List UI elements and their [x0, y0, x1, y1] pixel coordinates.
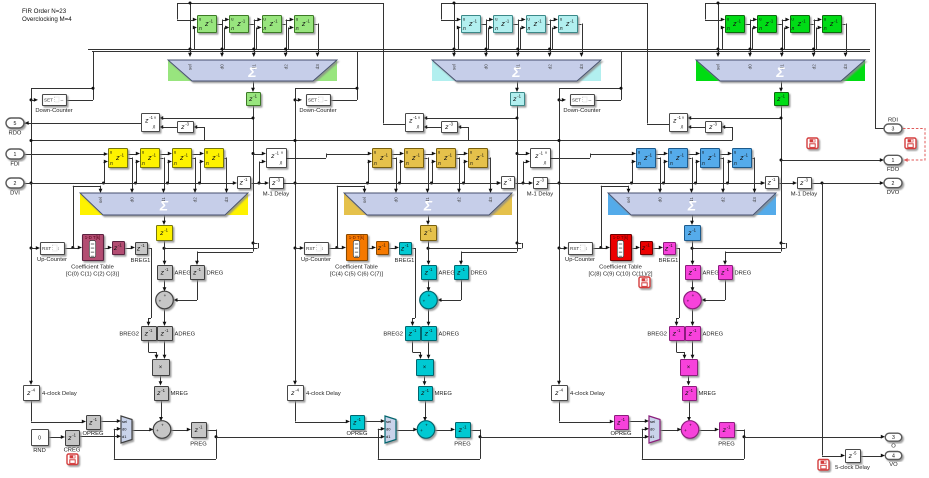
svg-text:d2: d2	[721, 197, 726, 203]
svg-text:-1: -1	[165, 328, 169, 333]
svg-text:d0: d0	[748, 64, 753, 70]
svg-text:-1: -1	[413, 115, 417, 120]
svg-text:-1: -1	[118, 243, 122, 248]
svg-text:Л: Л	[670, 161, 673, 167]
svg-text:u: u	[154, 116, 156, 120]
svg-text:ADREG: ADREG	[703, 332, 724, 338]
svg-text:-1: -1	[429, 328, 433, 333]
svg-text:-1: -1	[405, 243, 409, 248]
svg-text:Σ: Σ	[159, 198, 169, 214]
svg-text:-1: -1	[693, 328, 697, 333]
svg-text:-1: -1	[72, 433, 76, 438]
svg-text:4-clock Delay: 4-clock Delay	[306, 391, 341, 397]
svg-text:-1: -1	[416, 153, 420, 158]
svg-text:d3: d3	[752, 197, 757, 203]
svg-text:sel: sel	[650, 419, 655, 424]
svg-text:DREG: DREG	[471, 271, 488, 277]
svg-text:Л: Л	[702, 161, 705, 167]
svg-text:d3: d3	[315, 64, 320, 70]
svg-text:Л: Л	[560, 26, 563, 32]
svg-text:FDO: FDO	[887, 167, 900, 173]
svg-text:Л: Л	[463, 26, 466, 32]
svg-text:AREG: AREG	[439, 271, 456, 277]
svg-text:Л: Л	[470, 161, 473, 167]
svg-text:-4: -4	[31, 388, 35, 393]
svg-text:-1: -1	[274, 19, 278, 24]
svg-text:BREG2: BREG2	[119, 332, 139, 338]
svg-text:[C(4) C(5) C(6) C(7)]: [C(4) C(5) C(6) C(7)]	[330, 272, 384, 278]
svg-text:Up-Counter: Up-Counter	[301, 257, 331, 263]
svg-text:SET: SET	[44, 98, 53, 103]
svg-text:-3: -3	[185, 122, 189, 127]
svg-text:5-clock Delay: 5-clock Delay	[835, 465, 870, 471]
svg-text:3: 3	[892, 435, 895, 441]
svg-text:Л: Л	[495, 26, 498, 32]
svg-text:-1: -1	[538, 19, 542, 24]
svg-text:d2: d2	[457, 197, 462, 203]
svg-text:-1: -1	[461, 267, 465, 272]
svg-text:d0: d0	[394, 197, 399, 203]
svg-text:Л: Л	[638, 161, 641, 167]
svg-text:Л: Л	[231, 26, 234, 32]
svg-text:BREG1: BREG1	[131, 258, 151, 264]
svg-text:-1: -1	[680, 153, 684, 158]
svg-text:-1: -1	[382, 243, 386, 248]
svg-text:d2: d2	[812, 64, 817, 70]
svg-text:d0: d0	[658, 197, 663, 203]
svg-text:-1: -1	[570, 19, 574, 24]
svg-text:sel: sel	[122, 419, 127, 424]
svg-text:-1: -1	[164, 228, 168, 233]
svg-text:Л: Л	[206, 161, 209, 167]
svg-text:-1: -1	[184, 153, 188, 158]
svg-text:DREG: DREG	[735, 271, 752, 277]
svg-text:+: +	[159, 299, 162, 304]
svg-text:Σ: Σ	[247, 64, 257, 80]
svg-text:↕: ↕	[57, 246, 59, 251]
svg-text:Л: Л	[296, 26, 299, 32]
svg-text:-1: -1	[141, 243, 145, 248]
svg-text:-1: -1	[646, 243, 650, 248]
svg-text:+: +	[161, 422, 164, 427]
svg-text:+: +	[428, 293, 431, 298]
svg-text:Л: Л	[142, 161, 145, 167]
svg-text:-1: -1	[669, 243, 673, 248]
svg-text:Coefficient Table: Coefficient Table	[71, 265, 114, 271]
svg-text:-1: -1	[677, 328, 681, 333]
svg-text:-1: -1	[781, 94, 785, 99]
svg-text:d0: d0	[484, 64, 489, 70]
svg-text:-1: -1	[209, 19, 213, 24]
svg-text:-1: -1	[357, 417, 361, 422]
svg-text:-1: -1	[448, 153, 452, 158]
svg-text:-1: -1	[508, 177, 512, 182]
svg-text:BREG2: BREG2	[383, 332, 403, 338]
svg-text:+: +	[684, 428, 687, 433]
svg-text:-1: -1	[253, 94, 257, 99]
svg-text:d0: d0	[122, 427, 127, 432]
svg-text:-1: -1	[384, 153, 388, 158]
svg-text:-1: -1	[463, 425, 467, 430]
svg-text:4: 4	[892, 454, 895, 460]
svg-text:Л: Л	[406, 161, 409, 167]
svg-text:Л: Л	[734, 161, 737, 167]
svg-text:–: –	[325, 98, 328, 104]
svg-text:-4: -4	[295, 388, 299, 393]
svg-text:AREG: AREG	[175, 271, 192, 277]
svg-text:M-1 Delay: M-1 Delay	[263, 192, 290, 198]
svg-text:Down-Counter: Down-Counter	[35, 108, 72, 114]
svg-text:4-clock Delay: 4-clock Delay	[570, 391, 605, 397]
svg-text:Л: Л	[544, 161, 547, 166]
svg-text:Л: Л	[374, 161, 377, 167]
svg-text:O: O	[891, 444, 896, 450]
svg-text:sel: sel	[626, 197, 631, 203]
svg-text:Л: Л	[791, 26, 794, 32]
svg-text:FIR Order N=23: FIR Order N=23	[22, 8, 67, 15]
svg-text:BREG2: BREG2	[647, 332, 667, 338]
svg-text:-1: -1	[165, 267, 169, 272]
svg-text:OPREG: OPREG	[347, 431, 368, 437]
svg-text:d3: d3	[843, 64, 848, 70]
svg-text:-1: -1	[120, 153, 124, 158]
svg-text:↕: ↕	[321, 246, 323, 251]
svg-text:-1: -1	[161, 388, 165, 393]
svg-text:RDO: RDO	[9, 131, 22, 137]
svg-text:-1: -1	[480, 153, 484, 158]
svg-text:-1: -1	[306, 19, 310, 24]
svg-text:AREG: AREG	[703, 271, 720, 277]
svg-text:sel: sel	[188, 64, 193, 70]
svg-text:d2: d2	[548, 64, 553, 70]
svg-text:-3: -3	[804, 178, 808, 183]
svg-text:1: 1	[14, 152, 17, 158]
svg-text:+: +	[423, 299, 426, 304]
svg-text:Л: Л	[263, 26, 266, 32]
svg-text:+: +	[687, 299, 690, 304]
svg-text:RDI: RDI	[888, 118, 898, 124]
svg-text:-1: -1	[772, 177, 776, 182]
svg-text:RST: RST	[42, 246, 51, 251]
svg-text:-1: -1	[539, 151, 543, 156]
svg-text:+: +	[156, 428, 159, 433]
svg-text:1-D T[k]: 1-D T[k]	[349, 235, 365, 240]
svg-text:Σ: Σ	[511, 64, 521, 80]
svg-text:+: +	[420, 428, 423, 433]
svg-text:Σ: Σ	[423, 198, 433, 214]
svg-text:u: u	[281, 151, 283, 155]
svg-text:FDI: FDI	[10, 162, 20, 168]
svg-text:-3: -3	[276, 178, 280, 183]
svg-text:RST: RST	[306, 246, 315, 251]
svg-text:-1: -1	[802, 19, 806, 24]
svg-text:Л: Л	[824, 26, 827, 32]
svg-text:Coefficient Table: Coefficient Table	[335, 265, 378, 271]
svg-text:DREG: DREG	[207, 271, 224, 277]
svg-text:M-1 Delay: M-1 Delay	[791, 192, 818, 198]
svg-text:+: +	[692, 293, 695, 298]
svg-text:RND: RND	[33, 448, 46, 454]
svg-text:-1: -1	[216, 153, 220, 158]
svg-text:-1: -1	[677, 115, 681, 120]
svg-text:Up-Counter: Up-Counter	[37, 257, 67, 263]
svg-text:-1: -1	[621, 417, 625, 422]
svg-text:Л: Л	[527, 26, 530, 32]
svg-text:Coefficient Table: Coefficient Table	[599, 265, 642, 271]
svg-text:-1: -1	[725, 267, 729, 272]
svg-text:-1: -1	[275, 151, 279, 156]
svg-text:Overclocking M=4: Overclocking M=4	[22, 16, 72, 23]
svg-text:MREG: MREG	[171, 391, 189, 397]
svg-text:+: +	[425, 422, 428, 427]
svg-text:-1: -1	[149, 115, 153, 120]
svg-text:OPREG: OPREG	[83, 431, 104, 437]
svg-text:2: 2	[14, 181, 17, 187]
svg-text:+: +	[689, 422, 692, 427]
svg-text:d3: d3	[224, 197, 229, 203]
svg-text:-1: -1	[692, 228, 696, 233]
svg-text:1: 1	[892, 158, 895, 164]
svg-text:d2: d2	[284, 64, 289, 70]
svg-text:M-1 Delay: M-1 Delay	[527, 192, 554, 198]
svg-text:×: ×	[159, 365, 163, 371]
svg-text:u: u	[418, 116, 420, 120]
svg-text:Л: Л	[199, 26, 202, 32]
svg-text:ADREG: ADREG	[439, 332, 460, 338]
svg-text:–: –	[61, 98, 64, 104]
svg-text:Σ: Σ	[687, 198, 697, 214]
svg-text:-1: -1	[693, 267, 697, 272]
svg-text:PREG: PREG	[190, 442, 207, 448]
svg-text:MREG: MREG	[699, 391, 717, 397]
svg-text:MREG: MREG	[435, 391, 453, 397]
svg-text:d1: d1	[650, 434, 655, 439]
svg-text:-1: -1	[712, 153, 716, 158]
svg-text:DVI: DVI	[10, 191, 20, 197]
svg-text:-1: -1	[689, 388, 693, 393]
svg-text:Σ: Σ	[775, 64, 785, 80]
svg-text:-1: -1	[149, 328, 153, 333]
svg-text:d1: d1	[386, 434, 391, 439]
svg-text:Л: Л	[727, 26, 730, 32]
svg-text:Л: Л	[438, 161, 441, 167]
svg-text:-1: -1	[413, 328, 417, 333]
svg-text:-1: -1	[517, 94, 521, 99]
svg-text:-1: -1	[473, 19, 477, 24]
svg-text:sel: sel	[362, 197, 367, 203]
svg-text:sel: sel	[386, 419, 391, 424]
svg-text:Л: Л	[681, 125, 684, 130]
svg-text:-1: -1	[199, 425, 203, 430]
svg-text:-1: -1	[428, 228, 432, 233]
svg-text:-1: -1	[727, 425, 731, 430]
svg-text:-1: -1	[737, 19, 741, 24]
svg-text:Л: Л	[280, 161, 283, 166]
svg-text:d3: d3	[579, 64, 584, 70]
svg-text:×: ×	[687, 365, 691, 371]
svg-text:Л: Л	[759, 26, 762, 32]
svg-text:-1: -1	[425, 388, 429, 393]
svg-text:2: 2	[892, 181, 895, 187]
svg-text:×: ×	[423, 365, 427, 371]
svg-text:-5: -5	[853, 451, 857, 456]
svg-text:5: 5	[14, 121, 17, 127]
svg-text:DVO: DVO	[887, 190, 900, 196]
svg-text:sel: sel	[98, 197, 103, 203]
svg-text:Up-Counter: Up-Counter	[565, 257, 595, 263]
svg-text:-3: -3	[449, 122, 453, 127]
svg-text:-3: -3	[540, 178, 544, 183]
svg-text:Down-Counter: Down-Counter	[299, 108, 336, 114]
svg-text:Л: Л	[153, 125, 156, 130]
svg-text:-3: -3	[713, 122, 717, 127]
svg-text:Down-Counter: Down-Counter	[563, 108, 600, 114]
svg-text:–: –	[589, 98, 592, 104]
svg-text:-1: -1	[429, 267, 433, 272]
svg-text:-1: -1	[648, 153, 652, 158]
svg-text:-1: -1	[744, 153, 748, 158]
svg-text:[C(0) C(1) C(2) C(3)]: [C(0) C(1) C(2) C(3)]	[66, 272, 120, 278]
svg-text:d0: d0	[650, 427, 655, 432]
svg-text:d1: d1	[122, 434, 127, 439]
svg-text:sel: sel	[452, 64, 457, 70]
svg-text:1-D T[k]: 1-D T[k]	[85, 235, 101, 240]
svg-text:d3: d3	[488, 197, 493, 203]
svg-text:d0: d0	[130, 197, 135, 203]
svg-text:u: u	[682, 116, 684, 120]
svg-text:ADREG: ADREG	[175, 332, 196, 338]
svg-text:sel: sel	[716, 64, 721, 70]
svg-text:CREG: CREG	[64, 448, 81, 454]
svg-text:-1: -1	[244, 177, 248, 182]
svg-text:PREG: PREG	[718, 442, 735, 448]
svg-text:OPREG: OPREG	[611, 431, 632, 437]
svg-text:Л: Л	[110, 161, 113, 167]
svg-text:-1: -1	[834, 19, 838, 24]
svg-text:↕: ↕	[585, 246, 587, 251]
svg-text:-4: -4	[559, 388, 563, 393]
svg-text:Л: Л	[174, 161, 177, 167]
svg-text:Л: Л	[417, 125, 420, 130]
svg-text:SET: SET	[572, 98, 581, 103]
svg-text:-1: -1	[197, 267, 201, 272]
svg-text:-1: -1	[152, 153, 156, 158]
svg-text:RST: RST	[570, 246, 579, 251]
svg-text:+: +	[164, 293, 167, 298]
svg-text:d2: d2	[193, 197, 198, 203]
svg-text:0: 0	[38, 436, 41, 442]
svg-text:-1: -1	[93, 417, 97, 422]
svg-text:u: u	[545, 151, 547, 155]
svg-text:1-D T[k]: 1-D T[k]	[613, 235, 629, 240]
svg-text:d0: d0	[386, 427, 391, 432]
svg-text:VO: VO	[889, 462, 898, 468]
svg-text:SET: SET	[308, 98, 317, 103]
svg-text:BREG1: BREG1	[659, 258, 679, 264]
svg-text:4-clock Delay: 4-clock Delay	[42, 391, 77, 397]
svg-text:PREG: PREG	[454, 442, 471, 448]
svg-text:d0: d0	[220, 64, 225, 70]
svg-text:BREG1: BREG1	[395, 258, 415, 264]
svg-text:3: 3	[892, 127, 895, 133]
